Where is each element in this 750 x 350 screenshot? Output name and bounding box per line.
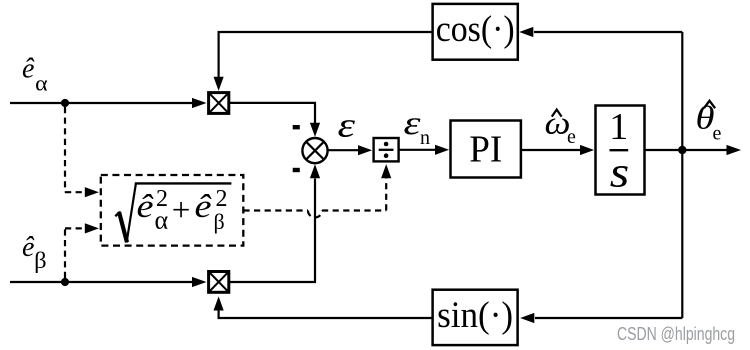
- arrowhead into divider left: [358, 145, 372, 155]
- minus sign upper: [293, 125, 300, 129]
- wire divider to PI: [399, 149, 436, 151]
- arrowhead into M1 top: [214, 77, 224, 91]
- dashed wire node B to magnitude block: [65, 228, 85, 278]
- arrowhead into integrator left: [580, 145, 594, 155]
- wire M2 to summing junction: [229, 179, 315, 283]
- multiplier M1: [209, 93, 229, 114]
- label e_beta input: [22, 232, 47, 273]
- wire PI to integrator: [522, 149, 581, 151]
- arrowhead into PI left: [435, 145, 449, 155]
- arrowhead into multiplier M1: [192, 98, 207, 108]
- arrowhead into cos right: [519, 27, 533, 37]
- wire theta feedback vertical: [681, 32, 683, 318]
- svg-text:ε: ε: [338, 106, 356, 145]
- svg-text:ê: ê: [22, 54, 35, 85]
- svg-text:cos(·): cos(·): [436, 9, 515, 50]
- svg-text:β: β: [34, 248, 47, 273]
- svg-text:ê: ê: [22, 232, 35, 263]
- minus sign lower: [293, 168, 300, 172]
- svg-text:+: +: [172, 193, 191, 229]
- svg-text:1: 1: [609, 106, 628, 148]
- label theta_e hat: [696, 101, 722, 145]
- block integrator 1/s: [596, 106, 645, 197]
- svg-text:CSDN @hlpinghcg: CSDN @hlpinghcg: [617, 324, 735, 344]
- arrowhead into divider bottom: [381, 164, 391, 178]
- node A junction dot: [61, 99, 69, 107]
- wire integrator to output: [645, 149, 728, 151]
- arrowhead into summing junction top: [310, 123, 320, 137]
- multiplier M2: [209, 272, 229, 293]
- svg-text:β: β: [214, 209, 225, 234]
- summing junction S1: [302, 138, 327, 163]
- svg-text:ê: ê: [137, 189, 154, 225]
- svg-text:PI: PI: [469, 128, 502, 170]
- arrowhead into multiplier M2: [192, 277, 207, 287]
- arrowhead into summing junction bottom: [310, 164, 320, 178]
- svg-text:ê: ê: [195, 189, 212, 225]
- dashed wire hop to divider bottom: [322, 179, 386, 211]
- svg-text:s: s: [610, 148, 630, 196]
- wire sin output to M2: [219, 310, 432, 318]
- wire cos output to M1 (top feedback): [219, 32, 432, 78]
- label omega_e hat: [545, 106, 577, 148]
- block magnitude sqrt dashed box: [101, 175, 244, 246]
- node theta junction dot: [678, 146, 686, 154]
- label epsilon_n: [404, 105, 431, 149]
- label e_alpha input: [22, 54, 48, 96]
- arrowhead into magnitude block upper: [85, 187, 99, 197]
- svg-text:ε: ε: [404, 105, 422, 142]
- block divider: [374, 138, 399, 161]
- dashed wire magnitude to divider: [243, 209, 308, 211]
- node B junction dot: [61, 278, 69, 286]
- magnitude expression text: [137, 186, 228, 235]
- wire M1 to summing junction: [229, 103, 315, 124]
- svg-text:n: n: [420, 127, 430, 149]
- arrowhead into M2 bottom: [214, 296, 224, 310]
- wire theta to cos input: [534, 31, 682, 33]
- block PI: [451, 121, 521, 178]
- wire sum to divider: [328, 149, 359, 151]
- arrowhead into sin right: [520, 313, 534, 323]
- wire ea input: [10, 102, 193, 104]
- arrowhead output: [727, 145, 742, 155]
- wire theta to sin input: [535, 317, 682, 319]
- radical sign: [115, 183, 231, 242]
- svg-text:α: α: [35, 70, 48, 95]
- wire eb input: [10, 281, 193, 283]
- svg-text:e: e: [713, 123, 722, 145]
- svg-text:α: α: [155, 206, 169, 235]
- dashed wire node A to magnitude block: [65, 107, 85, 192]
- arrowhead into magnitude block lower: [85, 223, 99, 233]
- svg-text:sin(·): sin(·): [437, 295, 513, 336]
- wire hop over vertical line: [308, 211, 322, 218]
- block cos: [433, 4, 518, 60]
- svg-text:e: e: [567, 126, 576, 148]
- block sin: [433, 290, 518, 345]
